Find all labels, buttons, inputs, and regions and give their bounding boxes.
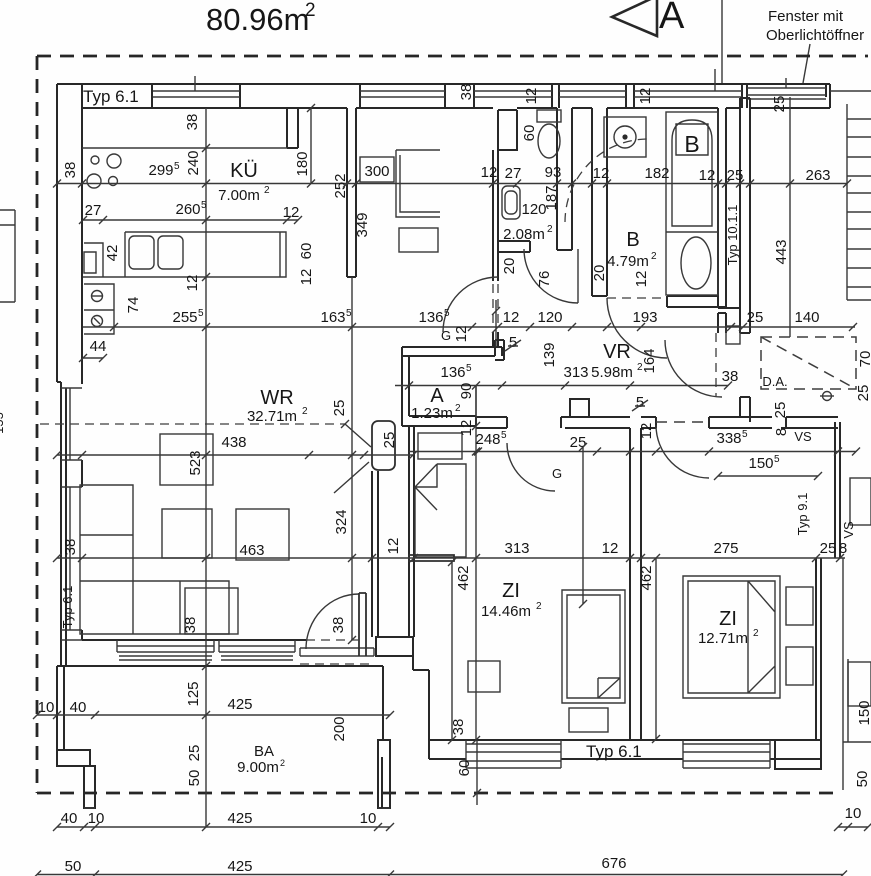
svg-text:150: 150 [856,700,871,725]
top exterior wall outer face [57,83,830,85]
door ZI-right arc [656,425,709,478]
svg-text:2: 2 [651,251,657,262]
right lower ledge [843,741,871,743]
bathtub inner head [672,120,712,226]
toilet bowl [538,124,560,158]
entrance opening jambs [740,333,750,397]
apartment right wall below entrance [740,397,750,422]
svg-text:90: 90 [458,383,475,400]
svg-text:40: 40 [61,810,78,827]
typ label niche top left [82,84,152,108]
window W1 kitchen [152,91,240,97]
svg-text:7.00m: 7.00m [218,187,260,204]
svg-text:150: 150 [748,455,773,472]
svg-text:32.71m: 32.71m [247,408,297,425]
title area total 80.96m2 [206,0,316,37]
bathroom B door dashes [607,297,667,299]
svg-text:Typ 6.1: Typ 6.1 [83,87,139,106]
svg-text:313: 313 [504,540,529,557]
svg-text:425: 425 [227,810,252,827]
door WR dashed projection [40,423,345,425]
svg-text:60: 60 [298,243,315,260]
apartment right wall upper [740,98,750,333]
window W5 [634,91,742,97]
dim line right 10 [838,826,868,828]
svg-text:25: 25 [331,400,348,417]
svg-text:523: 523 [187,450,204,475]
svg-text:12: 12 [699,167,716,184]
svg-text:Typ 6.1: Typ 6.1 [586,742,642,761]
svg-text:25: 25 [381,432,398,449]
svg-text:12: 12 [298,269,315,286]
svg-text:60: 60 [456,760,473,777]
bed ZI-right [683,576,780,698]
svg-text:50: 50 [65,858,82,875]
svg-text:12: 12 [481,164,498,181]
svg-text:2: 2 [305,0,316,21]
room label BA [237,743,285,776]
svg-text:12: 12 [523,88,540,105]
note Fenster mit Oberlichtoeffner [766,8,864,44]
strike tick for 5 label hall [505,340,521,351]
balcony bottom rail [84,807,390,809]
nightstand square ZI-left [468,661,500,692]
dim line kitchen 260 [83,219,298,221]
door shower arc [524,249,578,303]
neighbour mark left edge [0,210,15,302]
washbasin bowl [505,191,517,214]
svg-text:2: 2 [547,224,553,235]
svg-text:425: 425 [227,858,252,875]
wardrobe right of kitchen [396,150,440,217]
shower right wall [557,108,572,250]
ZI bottom window sill left [466,740,561,768]
svg-text:180: 180 [294,151,311,176]
svg-text:25: 25 [771,96,788,113]
svg-text:5: 5 [501,430,507,441]
washer column [84,284,114,334]
svg-text:136: 136 [418,309,443,326]
svg-text:275: 275 [713,540,738,557]
svg-text:5: 5 [198,308,204,319]
svg-text:50: 50 [186,770,203,787]
washing machine drum [614,126,636,148]
dashed window swing bathroom [565,139,648,222]
svg-text:252: 252 [332,173,349,198]
shower left wall block [498,110,517,150]
door WR leader [334,424,371,493]
dim line balcony lower [57,826,390,828]
bench below niche [409,555,454,561]
ZI right door dashes [656,421,709,423]
VS top wall segment [781,417,838,428]
svg-text:ZI: ZI [502,580,520,602]
entry jamb rect [726,326,740,344]
window W6 oberlicht [747,88,826,99]
open door dashed projection corridor [493,284,498,329]
balcony right post [378,740,390,808]
svg-text:425: 425 [227,696,252,713]
svg-text:5: 5 [636,394,644,411]
svg-text:139: 139 [541,342,558,367]
svg-text:38: 38 [182,617,199,634]
svg-text:9.00m: 9.00m [237,759,279,776]
strike tick for 5 label ZI right [632,400,648,411]
ZI bottom exterior wall [429,740,821,759]
svg-text:125: 125 [185,681,202,706]
balcony right edge [382,666,384,740]
svg-text:2: 2 [280,758,285,768]
window W1 mullion tick [194,76,196,91]
svg-text:163: 163 [320,309,345,326]
svg-text:B: B [684,131,699,157]
svg-text:50: 50 [854,771,871,788]
nightstand ZI-right upper [786,587,813,625]
hall A right edge line [475,385,477,416]
svg-text:200: 200 [331,716,348,741]
ZI left room west wall [409,426,414,637]
dim line 248 row [409,451,856,453]
svg-text:76: 76 [536,271,553,288]
svg-text:93: 93 [545,164,562,181]
room label ZI left [481,580,542,620]
washer symbols [92,291,103,327]
svg-text:5: 5 [466,363,472,374]
balcony left post [84,766,95,808]
hall A bottom wall [402,416,476,426]
top wall window jambs and piers [82,84,830,108]
section arrow triangle [612,0,657,36]
svg-text:2: 2 [536,601,542,612]
svg-text:2: 2 [302,406,308,417]
svg-text:25: 25 [855,385,871,402]
vertical chain kitchen [205,108,207,827]
ZI right top wall east part [709,417,772,428]
kitchen right wall [347,108,356,277]
svg-text:D.A.: D.A. [762,374,787,389]
svg-text:38: 38 [62,539,79,556]
svg-text:12: 12 [633,271,650,288]
window W6 mullion tick [785,78,787,88]
side table below wardrobe [399,228,438,252]
svg-text:12: 12 [602,540,619,557]
VS right box [850,478,871,525]
VS right wall [835,422,840,558]
vertical chain 462 left [451,562,453,740]
entry side wall horizontals [718,308,740,333]
room label WR [247,387,308,425]
leader line to window [803,44,810,83]
washing machine B [604,117,646,157]
svg-text:Fenster mit: Fenster mit [768,8,844,25]
dim line page bottom [37,874,843,876]
dim line row kitchen top [57,183,847,185]
svg-text:25: 25 [820,540,837,557]
window W5 mullion tick [714,69,716,91]
WR right lower wall [372,471,378,637]
stair wall line [847,104,871,300]
svg-text:Typ 10.1.1: Typ 10.1.1 [725,205,740,266]
vertical chain WR right [351,277,353,640]
wall block right of balcony door [376,637,429,740]
svg-text:443: 443 [773,239,790,264]
svg-text:38: 38 [330,617,347,634]
svg-text:74: 74 [125,297,142,314]
svg-text:2: 2 [455,403,461,414]
svg-text:2.08m: 2.08m [503,226,545,243]
svg-text:44: 44 [90,338,107,355]
svg-text:155: 155 [0,412,6,434]
door balcony dashed sill [300,640,370,664]
vertical chain hall ticks [495,300,497,347]
dim line kitchen 255 [83,326,855,328]
pillar at VR south [570,399,589,417]
vertical chain 462 right [655,558,657,739]
svg-text:12: 12 [184,275,201,292]
svg-text:KÜ: KÜ [230,160,258,182]
bath oval fixture [666,231,718,233]
bed niche ZI-left with fold [415,464,466,557]
svg-text:12: 12 [638,423,655,440]
vertical chain ZI-left [475,385,477,740]
room label KU [218,160,270,204]
WR bottom wall inner face [82,639,306,641]
balcony left step block [57,750,90,766]
svg-text:38: 38 [62,162,79,179]
door ZI-left arc [507,443,555,491]
svg-text:5: 5 [346,308,352,319]
svg-text:12: 12 [503,309,520,326]
svg-text:299: 299 [148,162,173,179]
dim line 44 [83,357,103,359]
svg-text:8: 8 [773,428,790,436]
svg-text:12: 12 [385,538,402,555]
svg-text:5: 5 [509,334,517,351]
handle symbol [820,392,834,401]
door corridor-WR arc [443,277,498,332]
svg-text:136: 136 [440,364,465,381]
balcony door threshold [300,648,374,656]
svg-text:38: 38 [184,114,201,131]
svg-text:12: 12 [637,88,654,105]
wall line to right edge [830,90,871,92]
svg-text:2: 2 [753,628,759,639]
hob circles [87,154,121,188]
room label shower area [503,224,553,243]
svg-text:12: 12 [283,204,300,221]
svg-text:60: 60 [521,125,538,142]
tall cupboard 300 box [360,157,394,182]
stair steps [847,119,871,287]
wall between ZI rooms [630,428,641,740]
svg-text:248: 248 [475,431,500,448]
svg-text:338: 338 [716,430,741,447]
svg-text:38: 38 [722,368,739,385]
washbasin shower [502,186,520,219]
left exterior wall outer face [57,84,66,666]
svg-text:Oberlichtöffner: Oberlichtöffner [766,27,864,44]
toilet tank [537,110,561,122]
kitchen counter [83,232,286,277]
step between WR and ZI south face [382,757,390,808]
dim line WR 438 [57,454,413,456]
svg-text:38: 38 [450,719,467,736]
svg-text:A: A [430,385,444,407]
bathtub wall right [718,108,726,308]
svg-text:5: 5 [174,161,180,172]
svg-text:10: 10 [38,699,55,716]
svg-text:25: 25 [772,402,789,419]
svg-text:313: 313 [563,364,588,381]
kitchen low cabinet [84,243,103,277]
corridor shower wall [493,150,498,347]
shower bottom wall [498,241,530,252]
hall A top wall [402,347,502,356]
ZI right top wall west part [641,417,656,428]
window W3 [474,91,552,97]
svg-text:14.46m: 14.46m [481,603,531,620]
svg-text:42: 42 [104,245,121,262]
svg-text:25: 25 [186,745,203,762]
svg-text:300: 300 [364,163,389,180]
ZI bottom wall pier right [775,740,821,769]
svg-text:Typ 9.1: Typ 9.1 [795,493,810,536]
svg-text:263: 263 [805,167,830,184]
svg-text:ZI: ZI [719,608,737,630]
hall A left wall [402,347,409,426]
door balcony leaf [359,593,366,656]
room label A hall [411,385,461,422]
DA diagonal [761,337,856,389]
door balcony arc [306,594,359,649]
svg-text:20: 20 [591,265,608,282]
dim line balcony top [37,714,390,716]
svg-text:182: 182 [644,165,669,182]
DA dashed box [761,337,856,389]
balcony left wall [57,666,64,750]
ZI left top wall [476,417,507,428]
svg-text:140: 140 [794,309,819,326]
room label VR [591,341,643,381]
nightstand ZI-right lower [786,647,813,685]
svg-text:5: 5 [774,454,780,465]
svg-text:20: 20 [501,258,518,275]
svg-text:12: 12 [458,420,475,437]
door bathroom B arc [607,298,667,358]
svg-text:A: A [659,0,685,37]
left wall window lower1 glazing [61,388,82,487]
svg-text:G: G [552,466,562,481]
window W2 [360,91,445,97]
door WR open leaf [372,421,395,470]
svg-text:255: 255 [172,309,197,326]
svg-text:240: 240 [185,150,202,175]
svg-text:B: B [626,229,639,251]
svg-text:25: 25 [727,167,744,184]
table 523 [160,434,213,485]
svg-text:25: 25 [570,434,587,451]
svg-text:25: 25 [747,309,764,326]
window W4 [559,91,626,97]
section line [721,0,723,84]
bathroom B left wall [592,108,607,296]
svg-text:5.98m: 5.98m [591,364,633,381]
svg-text:10: 10 [360,810,377,827]
svg-text:2: 2 [264,185,270,196]
kitchen top counter line [82,147,287,149]
dashed site border left [36,56,39,793]
svg-text:VR: VR [603,341,631,363]
svg-text:5: 5 [444,308,450,319]
svg-text:1.23m: 1.23m [411,405,453,422]
left exterior wall inner face [81,108,83,640]
terrace edge line [789,97,791,337]
ZI right east wall [816,558,821,739]
WR bottom window sills [119,656,293,660]
svg-text:BA: BA [254,743,274,760]
table mid [162,509,212,558]
door entrance dashed leaf [715,333,717,397]
kitchen niche wall stub [287,108,298,148]
kitchen sink bowls [129,236,154,269]
svg-text:462: 462 [638,565,655,590]
svg-text:Typ 6.1: Typ 6.1 [60,586,75,629]
vertical chain 180 [310,108,312,183]
bathroom B bottom wall [667,296,725,307]
room label B bath [607,229,657,270]
sofa L shape WR [80,485,229,634]
svg-text:438: 438 [221,434,246,451]
right outer lower line [843,558,848,790]
dim line 150 [718,475,818,477]
svg-text:5: 5 [742,429,748,440]
WR bottom wall outer face / balcony top line [57,665,383,667]
svg-text:4.79m: 4.79m [607,253,649,270]
ZI left top wall east part [561,417,630,428]
svg-text:12: 12 [453,326,470,343]
svg-text:676: 676 [601,855,626,872]
ZI bottom window sill right [683,740,770,768]
room label ZI right [698,608,759,647]
svg-text:80.96m: 80.96m [206,2,309,37]
dashed site border bottom [37,792,838,795]
svg-text:324: 324 [333,509,350,534]
chair square WR [185,588,238,634]
hall A right jog wall [495,340,504,360]
svg-text:10: 10 [88,810,105,827]
dashed site border top [37,55,868,58]
svg-text:VS: VS [841,521,856,539]
svg-text:5: 5 [201,200,207,211]
svg-text:260: 260 [175,201,200,218]
WR bottom windows glazing [117,640,295,652]
bathtub outer [666,112,718,295]
closet hall G [418,433,462,459]
dim line hall VR row [395,385,728,387]
left wall window lower2 glazing [61,487,82,640]
svg-text:WR: WR [260,387,293,409]
vertical chain balcony 60 [476,740,478,805]
nightstand ZI-left [569,708,608,732]
svg-text:462: 462 [455,565,472,590]
svg-text:120: 120 [521,201,546,218]
svg-text:G: G [441,328,451,343]
svg-text:349: 349 [354,212,371,237]
table 463 [236,509,289,560]
svg-text:120: 120 [537,309,562,326]
svg-text:VS: VS [794,429,812,444]
svg-text:164: 164 [641,348,658,373]
